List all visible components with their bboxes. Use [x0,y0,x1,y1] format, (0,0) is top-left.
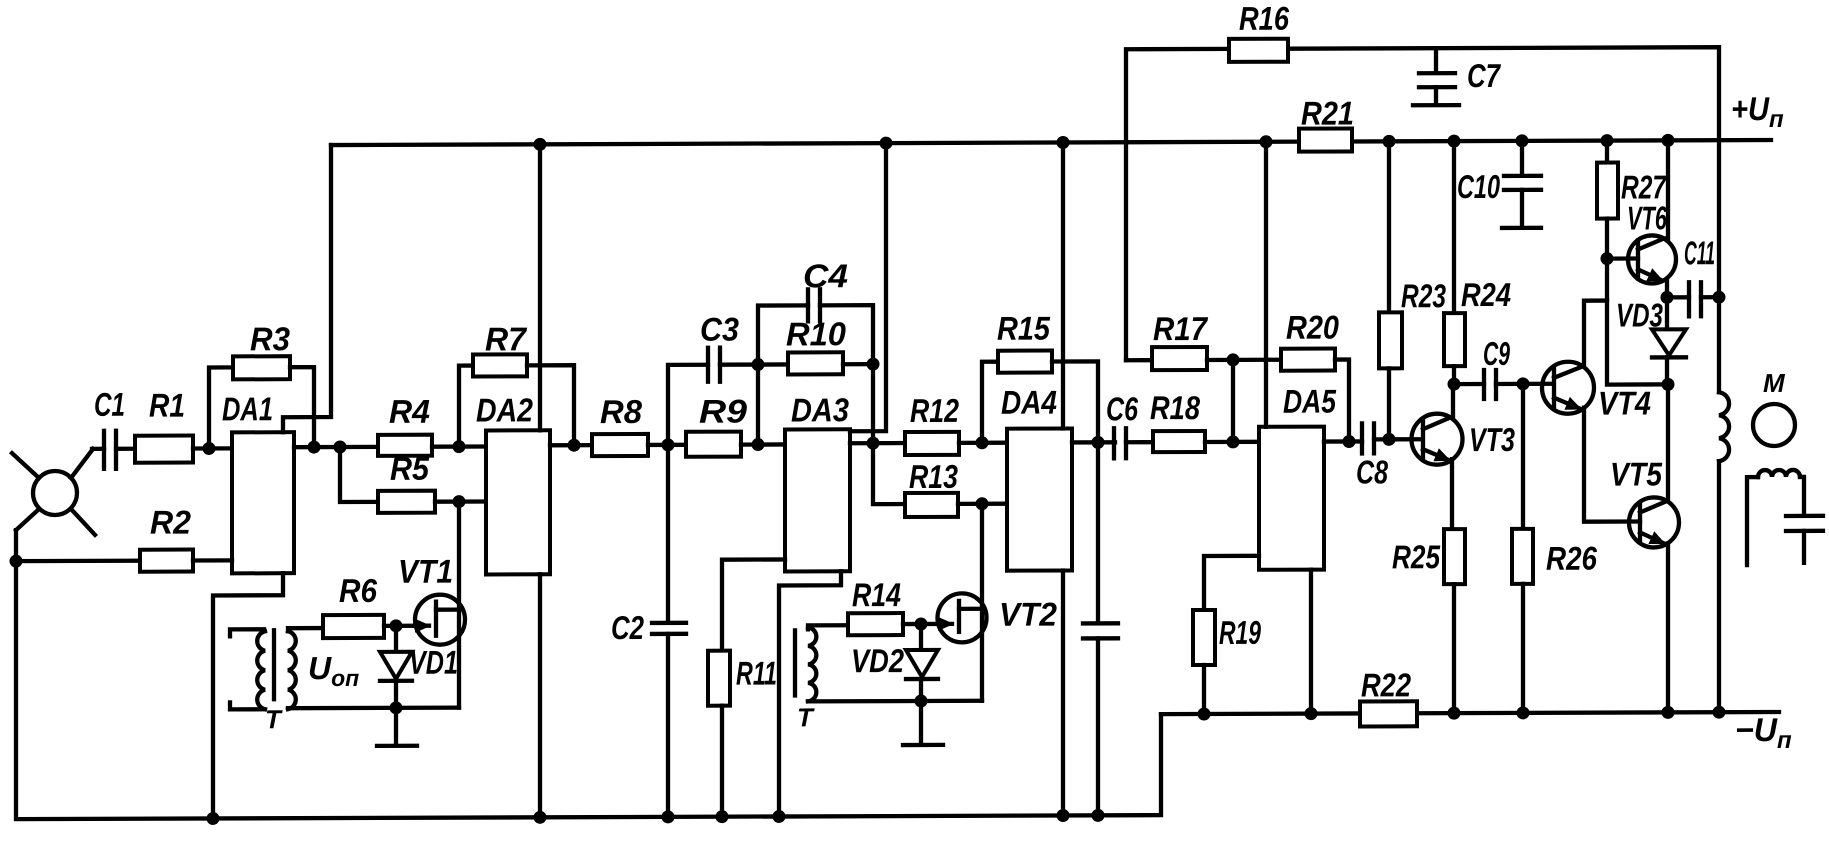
wire R4 to DA2 [432,444,486,448]
svg-text:R3: R3 [250,320,290,357]
svg-text:C4: C4 [803,257,848,294]
svg-text:R20: R20 [1286,309,1340,346]
node DA4 output C5 [1092,436,1105,449]
resistor R14 [848,576,903,635]
resistor R26 [1512,384,1598,713]
wire +Un rail [331,140,1771,145]
resistor R1 [135,387,193,463]
svg-text:C10: C10 [1457,168,1500,205]
svg-text:VT6: VT6 [1627,199,1667,236]
transformer T core [272,630,276,699]
wire T2 bottom loop [808,699,982,704]
node C3 R10 junction [752,358,765,371]
wire DA1 bottom to ground rail [213,573,283,818]
wire R14 to VT2 gate [903,622,952,626]
svg-text:VD1: VD1 [409,644,458,681]
resistor R4 [378,393,432,456]
transistor VT4 [1542,300,1651,521]
wire -Un rail [1161,712,1779,714]
diode VD3 [1616,296,1686,384]
wire VT2 drain column [980,504,984,701]
svg-text:R6: R6 [339,572,378,609]
svg-text:VT4: VT4 [1598,384,1651,421]
input head X1 [12,449,95,535]
wire R8 to R9 [648,443,686,447]
resistor R16 [1229,0,1290,62]
wire VT6 base column [1607,258,1668,384]
wire DA3 output line [850,441,905,445]
node R9 output junction [752,438,765,451]
op-amp DA1 [222,390,294,573]
wire bottom ground rail [16,526,1161,819]
node VT6 base junction [1601,252,1614,265]
capacitor motor phase [1786,516,1823,563]
wire DA4 power from +Un [1061,142,1065,428]
resistor R6 [323,572,384,638]
node VT3 collector C9 [1448,378,1461,391]
capacitor C1 [94,386,125,469]
transformer T winding left [230,629,265,709]
wire R18 to DA5 [1205,440,1259,444]
resistor R19 [1193,556,1261,714]
resistor R20 [1281,308,1349,441]
capacitor C5 shunt [1083,442,1118,815]
wire R12 to DA4 [959,441,1007,445]
wire DA5 power from +Un [1264,142,1268,427]
svg-text:R11: R11 [736,654,777,691]
wire C6 to R18 [1126,440,1153,444]
svg-text:R26: R26 [1546,540,1598,577]
node DA5 output R20 [1343,435,1356,448]
node bottom rail junctions [207,809,1105,825]
transformer T core second [795,630,815,732]
motor aux winding [1747,470,1804,565]
wire VT1 drain column [457,502,461,708]
svg-text:DA5: DA5 [1283,383,1337,420]
transformer T winding second [808,627,816,701]
resistor R5 [340,447,486,514]
ground VD2 [903,701,943,745]
svg-text:M: M [1763,368,1786,398]
wire input to C1 [92,447,104,451]
wire DA4 bottom to ground [1061,570,1065,815]
svg-text:R22: R22 [1361,666,1412,703]
transistor VT1 [398,553,465,645]
resistor R15 feedback [982,309,1098,442]
node R5 VT1 branch [453,495,466,508]
node DA1 input [203,442,216,455]
transformer T winding right Uap [265,631,359,734]
resistor R21 [1299,94,1354,151]
svg-text:DA3: DA3 [791,391,849,428]
node R17 R20 junction [1227,353,1240,366]
op-amp DA4 [1001,383,1072,570]
svg-text:R4: R4 [389,393,430,430]
svg-text:C7: C7 [1467,57,1501,94]
node R4 R7 junction [453,440,466,453]
op-amp DA5 [1259,383,1337,570]
svg-text:VT5: VT5 [1610,455,1663,492]
diode VD2 [851,624,938,701]
resistor R8 [592,393,648,456]
svg-text:R12: R12 [910,392,960,429]
svg-text:R8: R8 [600,393,643,430]
svg-text:C9: C9 [1483,335,1510,372]
resistor R11 [708,559,785,816]
svg-text:T: T [797,702,815,732]
node VD3 VT5 collector junction [1662,378,1675,391]
node R12 R15 junction [976,436,989,449]
capacitor C11 [1667,234,1715,316]
resistor R17 [1126,310,1281,371]
resistor R25 [1392,529,1465,713]
capacitor C3 bridge [668,311,758,445]
transistor VT3 [1412,384,1516,529]
node C9 R26 VT4 [1517,377,1530,390]
node DA1 output R3 [308,441,321,454]
node C11 motor junction [1713,291,1726,304]
resistor R13 [873,443,1007,517]
node R8 R9 C2 C3 [662,438,675,451]
node R13 VT2 junction [976,497,989,510]
ground VD1 [377,708,417,746]
capacitor C6 [1106,390,1138,458]
resistor R9 [686,393,748,457]
wire DA1 power stub to +Un [283,145,331,432]
motor M winding [1719,392,1729,712]
svg-text:R23: R23 [1401,277,1446,314]
resistor R2 [16,503,232,572]
wire DA5 bottom to -Un [1309,570,1313,714]
node C8 R23 VT3 [1383,433,1396,446]
svg-text:C3: C3 [700,311,739,348]
node R2 ground branch [10,555,23,568]
svg-text:C1: C1 [94,386,125,423]
svg-text:R19: R19 [1219,614,1261,651]
svg-text:VD2: VD2 [851,642,905,679]
wire DA3 power stub to +Un [850,143,886,431]
wire T secondary bottom [288,705,459,710]
wire C4 riser left [758,305,808,444]
svg-text:VT3: VT3 [1469,421,1515,458]
svg-text:R15: R15 [997,310,1051,347]
capacitor C2 [611,445,686,817]
resistor R24 [1444,141,1511,384]
transistor VT6 [1607,140,1676,297]
node R18 R17 junction [1227,435,1240,448]
wire C9 to VT4 base [1496,382,1553,386]
node -Un rail junctions [1198,706,1726,721]
wire R6 to VT1 gate [384,624,429,628]
wire R16 feedback line [1126,47,1719,394]
svg-text:R17: R17 [1153,310,1208,347]
capacitor C9 [1454,335,1510,399]
wire R17 junction down [1231,360,1235,442]
diode VD1 [380,626,458,708]
svg-text:R25: R25 [1392,538,1441,575]
wire DA2 bottom to ground [538,574,542,817]
capacitor C8 [1356,423,1388,490]
node R10 right junction [867,358,880,371]
svg-text:DA4: DA4 [1001,384,1057,421]
node R14 VD2 junction [915,617,928,630]
svg-text:C6: C6 [1106,390,1138,427]
resistor R27 [1597,140,1667,258]
op-amp DA2 [476,391,550,574]
capacitor C7 [1413,48,1501,105]
wire DA1 output line [294,445,378,450]
resistor R12 [905,392,960,455]
wire C8 to VT3 [1374,437,1421,441]
wire DA5 output line [1324,439,1362,443]
svg-text:R18: R18 [1150,389,1201,426]
node DA3 output [867,437,880,450]
svg-text:R10: R10 [786,315,847,352]
wire DA3 bottom to ground [779,571,841,816]
label +Un terminal [1731,90,1784,133]
wire DA2 output line [550,443,592,447]
svg-text:T: T [265,704,283,734]
node VT6 emitter C11 VD3 [1661,291,1674,304]
resistor R23 [1379,141,1446,439]
resistor R3 feedback [209,320,314,448]
svg-text:C8: C8 [1356,453,1388,490]
svg-text:DA1: DA1 [222,390,273,427]
resistor R10 feedback [758,315,873,374]
svg-text:R13: R13 [909,458,958,495]
svg-text:C11: C11 [1684,234,1715,271]
svg-text:VT1: VT1 [398,553,453,590]
svg-text:R1: R1 [149,387,185,424]
wire C4 riser right [820,305,873,444]
wire T2 top to R14 [808,625,848,629]
label -Un terminal [1735,711,1792,754]
motor M [1753,368,1795,446]
svg-text:R5: R5 [390,450,430,487]
resistor R7 feedback [459,320,574,446]
node +Un rail junctions [534,134,1675,151]
wire R9 to DA3 [741,442,785,446]
transistor VT5 [1610,384,1679,712]
wire DA4 output line [1072,440,1115,444]
wire C11 to motor line [1701,295,1719,299]
svg-text:R21: R21 [1301,94,1354,131]
svg-text:VD3: VD3 [1616,296,1663,333]
capacitor C4 [803,257,848,321]
node R4 R5 branch [334,440,347,453]
wire R1 to DA1 input [193,446,232,450]
svg-text:VT2: VT2 [999,596,1058,633]
capacitor C10 [1457,141,1541,228]
node VD1 bottom junction [390,701,403,714]
svg-text:C2: C2 [611,609,645,646]
svg-text:R24: R24 [1461,276,1511,313]
svg-text:DA2: DA2 [476,391,534,428]
svg-text:R9: R9 [699,393,748,430]
svg-text:R14: R14 [852,576,901,613]
node R6 VD1 junction [390,619,403,632]
svg-text:R2: R2 [150,504,192,541]
wire C1 to R1 [116,447,135,451]
svg-text:R16: R16 [1239,0,1290,37]
transistor VT2 [938,593,1058,642]
resistor R18 [1150,389,1205,452]
svg-text:R7: R7 [485,320,528,357]
wire DA2 power from +Un [538,144,542,430]
node DA2 output R7 [568,439,581,452]
op-amp DA3 [785,391,850,571]
resistor R22 [1360,666,1417,726]
wire T secondary top to R6 [288,628,323,631]
node VD2 bottom junction [915,694,928,707]
